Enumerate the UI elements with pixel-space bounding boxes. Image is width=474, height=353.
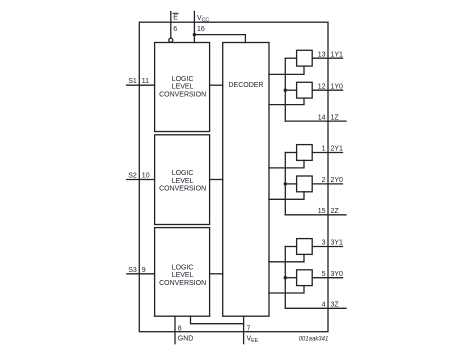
analog switch 1Y0 xyxy=(297,82,313,98)
wire 3Z common to switch 3Y0 xyxy=(285,277,296,279)
analog switch 3Y1 xyxy=(297,239,313,255)
junction 1Z to 1Y0 xyxy=(284,89,287,92)
IC package outline xyxy=(139,22,328,332)
junction VCC branch xyxy=(193,33,196,36)
svg-text:VEE: VEE xyxy=(247,336,259,345)
svg-text:CONVERSION: CONVERSION xyxy=(159,91,206,98)
pin 14 1Z wire xyxy=(285,120,346,122)
pin 1 2Y1 output wire xyxy=(312,152,342,154)
svg-text:2Y1: 2Y1 xyxy=(331,146,344,153)
wire 2Z common to switch 2Y1 xyxy=(285,152,296,154)
analog switch 3Y0 xyxy=(297,270,313,286)
pin 3 3Y1 output wire xyxy=(312,246,342,248)
svg-text:CONVERSION: CONVERSION xyxy=(159,186,206,193)
pin 9 S3 input wire xyxy=(127,273,155,275)
wire 3Z common to switch 3Y1 xyxy=(285,246,296,248)
svg-text:3Y1: 3Y1 xyxy=(331,240,344,247)
wire decoder control to switch 2Y0 xyxy=(269,192,304,200)
svg-text:2Z: 2Z xyxy=(331,208,340,215)
analog switch 2Y1 xyxy=(297,145,313,161)
svg-text:4: 4 xyxy=(322,302,326,309)
wire decoder control to switch 2Y1 xyxy=(269,160,304,168)
svg-text:12: 12 xyxy=(318,83,326,90)
svg-text:LEVEL: LEVEL xyxy=(172,178,194,185)
switch group 2 xyxy=(269,145,346,215)
svg-text:E: E xyxy=(173,15,178,22)
svg-text:1Z: 1Z xyxy=(331,114,340,121)
svg-text:9: 9 xyxy=(142,267,146,274)
svg-text:S2: S2 xyxy=(128,173,137,180)
decoder block xyxy=(223,43,269,317)
wire 1Z common vertical xyxy=(284,58,286,121)
wire decoder control to switch 3Y0 xyxy=(269,286,304,293)
svg-text:DECODER: DECODER xyxy=(228,82,263,89)
svg-text:7: 7 xyxy=(247,325,251,332)
overline of E xyxy=(173,12,178,14)
pin 10 S2 input wire xyxy=(127,179,155,181)
svg-text:S3: S3 xyxy=(128,267,137,274)
wire block1 to decoder xyxy=(210,84,223,86)
svg-text:15: 15 xyxy=(318,208,326,215)
wire block3 to VEE xyxy=(191,316,244,324)
wire decoder control to switch 1Y1 xyxy=(269,66,304,74)
svg-text:11: 11 xyxy=(142,78,149,85)
wire decoder control to switch 3Y1 xyxy=(269,254,304,261)
logic level conversion block 2 xyxy=(155,135,210,225)
svg-text:2Y0: 2Y0 xyxy=(331,177,344,184)
svg-text:6: 6 xyxy=(173,26,177,33)
svg-text:16: 16 xyxy=(197,26,205,33)
svg-text:10: 10 xyxy=(142,173,150,180)
svg-text:8: 8 xyxy=(178,325,182,332)
svg-text:2: 2 xyxy=(322,177,326,184)
svg-text:3Z: 3Z xyxy=(331,302,340,309)
svg-text:14: 14 xyxy=(318,114,326,121)
switch group 1 xyxy=(269,50,346,121)
svg-text:CONVERSION: CONVERSION xyxy=(159,280,206,287)
svg-text:LEVEL: LEVEL xyxy=(172,84,194,91)
wire 1Z common to switch 1Y0 xyxy=(285,89,296,91)
analog switch 2Y0 xyxy=(297,176,313,192)
label LOGIC LEVEL CONVERSION block 1 xyxy=(159,76,206,98)
svg-text:3Y0: 3Y0 xyxy=(331,271,344,278)
junction 3Z to 3Y0 xyxy=(284,276,287,279)
svg-text:GND: GND xyxy=(178,336,194,343)
svg-text:1Y1: 1Y1 xyxy=(331,51,344,58)
pin 15 2Z wire xyxy=(285,214,346,216)
svg-text:13: 13 xyxy=(318,51,326,58)
pin 2 2Y0 output wire xyxy=(312,183,342,185)
pin 5 3Y0 output wire xyxy=(312,277,342,279)
wire decoder control to switch 1Y0 xyxy=(269,98,304,105)
svg-text:1: 1 xyxy=(322,146,326,153)
switch group 3 xyxy=(269,239,346,309)
label LOGIC LEVEL CONVERSION block 3 xyxy=(159,265,206,287)
svg-text:LOGIC: LOGIC xyxy=(172,76,194,83)
wire 2Z common vertical xyxy=(284,153,286,215)
svg-text:LOGIC: LOGIC xyxy=(172,265,194,272)
svg-text:S1: S1 xyxy=(128,78,137,85)
analog switch 1Y1 xyxy=(297,50,313,66)
wire 2Z common to switch 2Y0 xyxy=(285,183,296,185)
pin 6 E input wire xyxy=(170,12,172,39)
svg-text:5: 5 xyxy=(322,271,326,278)
wire VCC branch to decoder xyxy=(194,35,245,43)
svg-text:1Y0: 1Y0 xyxy=(331,83,344,90)
pin 8 GND wire xyxy=(174,316,176,344)
logic level conversion block 1 xyxy=(155,43,210,132)
pin 7 VEE wire xyxy=(243,316,245,344)
svg-text:3: 3 xyxy=(322,240,326,247)
inversion bubble on E input xyxy=(169,38,173,42)
svg-text:LOGIC: LOGIC xyxy=(172,170,194,177)
svg-text:001aak341: 001aak341 xyxy=(299,336,329,342)
wire 3Z common vertical xyxy=(284,247,286,309)
pin 16 VCC wire xyxy=(193,12,195,43)
junction 2Z to 2Y0 xyxy=(284,182,287,185)
svg-text:LEVEL: LEVEL xyxy=(172,272,194,279)
wire block3 to decoder xyxy=(210,273,223,275)
pin 13 1Y1 output wire xyxy=(312,57,342,59)
label LOGIC LEVEL CONVERSION block 2 xyxy=(159,170,206,192)
wire 1Z common to switch 1Y1 xyxy=(285,57,296,59)
wire block2 to decoder xyxy=(210,179,223,181)
pin 11 S1 input wire xyxy=(127,84,155,86)
logic level conversion block 3 xyxy=(155,228,210,317)
pin 4 3Z wire xyxy=(285,307,346,309)
pin 12 1Y0 output wire xyxy=(312,89,342,91)
